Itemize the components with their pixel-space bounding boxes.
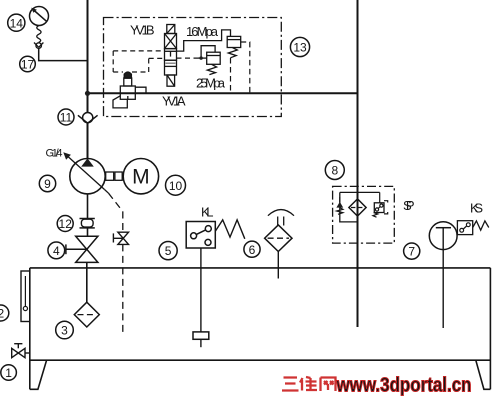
pump variable arrow to G1/4 [67, 156, 105, 190]
pump outlet triangle [81, 158, 94, 166]
relief valve 16Mpa [177, 30, 241, 58]
svg-text:14: 14 [10, 16, 24, 30]
solenoid cartridge valve YV1B stack [165, 25, 177, 87]
tank left leg [30, 360, 47, 389]
wire: float stem [200, 248, 202, 332]
KL spring zigzag [215, 220, 245, 239]
svg-text:2: 2 [0, 307, 4, 321]
label circle 9 [39, 175, 55, 191]
tank drain valve 1 [12, 344, 30, 358]
air breather filter 6 [265, 210, 294, 279]
suction shutoff valve 4 [66, 236, 98, 262]
label circle 3 [56, 321, 74, 339]
check valve (17) gauge isolator [34, 43, 43, 49]
pressure gauge PG (14) [30, 7, 49, 26]
label circle 11 [58, 109, 74, 125]
svg-text:M: M [132, 166, 150, 189]
bypass check valve with spring [336, 197, 343, 214]
wire: pump case drain (dashed) [105, 190, 109, 194]
label circle 10 [166, 175, 186, 195]
level gauge 2 [21, 271, 30, 322]
label circle 5 [159, 242, 177, 260]
label circle 2 [0, 305, 9, 321]
svg-text:6: 6 [249, 243, 256, 257]
wire: horizontal pressure line y=93.3 [88, 92, 358, 94]
svg-text:13: 13 [293, 41, 307, 55]
wire: main return vertical x=357.5 [357, 0, 359, 327]
svg-text:YV1A: YV1A [162, 94, 186, 109]
tank outline [30, 268, 491, 389]
svg-text:10: 10 [169, 179, 183, 193]
dashed pilot from valve to 25Mpa [177, 57, 199, 59]
svg-text:8: 8 [331, 164, 338, 178]
svg-text:5: 5 [165, 244, 172, 258]
svg-text:1: 1 [5, 366, 12, 380]
hose coupling 12 [80, 219, 95, 228]
check valve 11 [78, 113, 98, 124]
svg-text:KL: KL [201, 205, 214, 220]
drain dashed from 16Mpa spring [230, 58, 232, 93]
label circle 17 [20, 56, 36, 72]
svg-text:25Mpa: 25Mpa [196, 76, 226, 91]
return filter block 8 (dash-dot box) [333, 186, 395, 243]
svg-text:YV1B: YV1B [130, 23, 155, 38]
label circle 4 [48, 242, 65, 259]
pilot dashed to main line from 16Mpa [241, 42, 250, 93]
return filter diamond [349, 199, 366, 216]
wire: gauge line to main line [39, 49, 88, 61]
svg-text:17: 17 [21, 58, 35, 72]
label circle 12 [57, 216, 73, 232]
svg-text:3: 3 [61, 324, 68, 338]
coupling pump-motor [106, 172, 114, 180]
filter bypass top line [340, 191, 380, 193]
wire [87, 228, 89, 237]
suction strainer 3 [74, 302, 99, 327]
label circle 14 [8, 14, 25, 31]
watermark [282, 374, 472, 397]
label circle 8 [325, 161, 344, 180]
float [193, 332, 209, 339]
pump U9 [70, 159, 105, 194]
wire: drain into tank (dashed) [122, 244, 124, 335]
relief valve 25Mpa [198, 46, 220, 75]
cartridge valve YV1A [113, 72, 146, 108]
label circle 7 [404, 243, 420, 259]
wire: valve to strainer [86, 262, 88, 302]
svg-text:7: 7 [408, 245, 415, 259]
wire: gauge damping squiggle [37, 26, 41, 43]
drain needle valve [113, 232, 128, 244]
label circle 6 [244, 241, 260, 257]
dashed pilot lines around YV1A [113, 51, 164, 72]
wire: pump suction down [87, 194, 89, 220]
tank right leg [476, 360, 491, 389]
svg-text:9: 9 [44, 177, 51, 191]
filter bypass bottom line [340, 192, 358, 222]
svg-text:KS: KS [470, 201, 483, 216]
level relay KL (5) [186, 222, 215, 249]
wire: main pressure vertical line x=87.5 top [87, 0, 89, 113]
motor M (10) [123, 159, 158, 194]
node junction at (87.5,93.3) [85, 91, 90, 96]
wire: main pressure vertical below check valve to pump [87, 123, 89, 159]
label circle 1 [1, 365, 17, 381]
label circle 13 [290, 37, 309, 56]
temperature switch KS [457, 221, 488, 235]
clogging indicator SP [373, 192, 388, 217]
svg-text:12: 12 [59, 217, 73, 231]
svg-text:11: 11 [60, 111, 73, 125]
valve block 13 (dash-dot box) [104, 18, 282, 117]
thermometer 7 [429, 222, 457, 328]
svg-text:16Mpa: 16Mpa [186, 24, 219, 39]
svg-text:SP: SP [403, 198, 415, 213]
svg-text:4: 4 [53, 244, 60, 258]
svg-text:G1/4: G1/4 [46, 148, 63, 160]
svg-text:www.3dportal.cn: www.3dportal.cn [336, 374, 472, 397]
